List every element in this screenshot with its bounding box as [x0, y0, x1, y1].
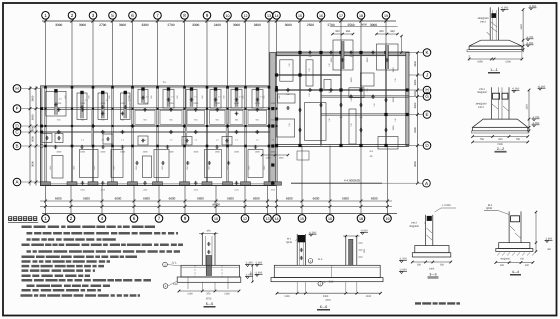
wing rebar mark [308, 52, 312, 54]
column square rowD [206, 125, 208, 127]
right chain tick [416, 113, 419, 116]
bottom pad [67, 182, 77, 185]
svg-text:960: 960 [390, 30, 395, 33]
svg-text:960: 960 [346, 30, 351, 33]
bottom grid bubble 2 [70, 214, 72, 215]
detail 1-1 elev a [501, 10, 504, 12]
notes text line 9 [22, 269, 96, 272]
bottom chain ticks [244, 200, 247, 203]
junction dim line [262, 154, 288, 156]
band2 wall mark [215, 109, 219, 111]
bottom grid bubble 14 [276, 214, 278, 215]
wing rebar mark [384, 99, 388, 101]
svg-text:3000: 3000 [285, 23, 292, 27]
right grid bubble K [423, 49, 431, 57]
wing rebar mark [319, 104, 323, 106]
svg-text:17: 17 [339, 14, 343, 18]
svg-text:1500: 1500 [215, 151, 221, 154]
band2 wall mark [169, 109, 173, 111]
band3 mark [225, 140, 229, 142]
svg-text:2Φ12: 2Φ12 [478, 106, 485, 109]
top chain tick 1 [44, 19, 47, 22]
rowC mark [235, 131, 239, 133]
bottom grid dropper [244, 186, 246, 214]
rowB mark [80, 146, 84, 148]
wing rebar mark [349, 96, 353, 98]
column square top [92, 86, 95, 89]
left dim chain line inner [35, 86, 37, 186]
bottom grid bubble 4 [101, 214, 103, 215]
top chain tick 16 [319, 19, 322, 22]
plan wall row C [41, 130, 276, 132]
footing rebar mark [123, 106, 127, 108]
detail 1-1 column embed [491, 13, 496, 18]
section 5-5 label 1 [163, 262, 168, 267]
svg-text:1200: 1200 [120, 102, 126, 105]
right grid bubble H [423, 86, 431, 94]
svg-text:1200: 1200 [143, 102, 149, 105]
footing rect band1 [231, 90, 242, 109]
room rect band2 [187, 110, 205, 124]
footing top mark [214, 87, 217, 90]
svg-text:1200: 1200 [193, 102, 199, 105]
wing column square [298, 73, 301, 76]
detail 2-2 elev d [532, 125, 535, 127]
junction small rect [297, 151, 309, 160]
bottom dim chain lower [40, 206, 392, 208]
grid line 16 vertical [320, 21, 322, 53]
svg-text:750: 750 [516, 138, 521, 141]
band3 mark [45, 137, 49, 139]
svg-text:9600: 9600 [361, 23, 367, 26]
room rect band4 [143, 156, 152, 178]
rowC mark [169, 131, 173, 133]
wing footing rect [280, 60, 293, 81]
section 5-5 stem lines [201, 282, 203, 290]
notes text line 3 [27, 238, 117, 241]
column square top [244, 86, 247, 89]
notes text line 2 [27, 232, 179, 235]
wing column square [405, 113, 408, 116]
detail 2-2 footing [473, 119, 528, 127]
right grid bubble D [423, 142, 431, 150]
section 5-5 column top dim [199, 233, 218, 235]
wing wall row E [321, 113, 409, 115]
bottom grid dropper [101, 186, 103, 214]
top chain tick 8 [183, 19, 186, 22]
wing column square [359, 88, 362, 91]
svg-text:-1.300: -1.300 [255, 262, 263, 265]
svg-text:3300: 3300 [414, 127, 417, 133]
notes text line 14 [21, 294, 141, 297]
plan wall col 8 [183, 86, 185, 186]
room rect band2 [230, 110, 243, 124]
svg-text:-2.000: -2.000 [399, 269, 407, 272]
wing wall col 15 [298, 53, 300, 146]
svg-text:2400: 2400 [214, 23, 221, 27]
top chain tick 15 [298, 19, 301, 22]
bottom pad [264, 182, 274, 185]
notes title underline [8, 222, 38, 224]
wing column square [319, 51, 322, 54]
svg-text:6: 6 [131, 13, 134, 18]
bottom grid dropper [301, 146, 303, 214]
left chain ticks [29, 181, 32, 184]
column square rowF [92, 108, 94, 110]
wing wall row J [277, 73, 342, 75]
svg-text:6600: 6600 [313, 197, 320, 201]
wall gray fill v1 [91, 109, 93, 146]
column square top [44, 86, 47, 89]
svg-text:1500: 1500 [392, 67, 395, 73]
svg-text:6—6: 6—6 [320, 305, 328, 309]
right chain tick [416, 74, 419, 77]
section 6-6 label 1 [308, 259, 313, 264]
svg-text:15: 15 [300, 217, 304, 221]
bottom grid dropper [158, 186, 160, 214]
column square rowB [206, 145, 209, 148]
wing rebar mark [329, 89, 333, 91]
notes text line 6 [22, 256, 138, 259]
wing footing rect [277, 119, 295, 137]
rowA mark [101, 182, 105, 184]
section 6-6 left column [296, 234, 298, 265]
top chain tick 3 [91, 19, 94, 22]
footing top mark [54, 89, 57, 92]
svg-text:400: 400 [500, 264, 505, 267]
svg-text:1200: 1200 [505, 61, 511, 64]
band4 mark [227, 162, 231, 164]
rowD grid mark [183, 125, 187, 127]
section 6-6 right col top dim [343, 235, 360, 237]
wing column square [339, 88, 342, 91]
column square rowB [268, 145, 271, 148]
top grid bubble 18 [357, 12, 365, 20]
column square rowD [244, 125, 246, 127]
svg-text:3600: 3600 [32, 114, 35, 120]
bottom pad [202, 182, 212, 185]
svg-text:13: 13 [267, 14, 271, 18]
bottom grid dropper [276, 186, 278, 214]
svg-text:16: 16 [319, 14, 323, 18]
grid line 17 vertical [340, 21, 342, 53]
left wall row blobs [40, 107, 43, 110]
rowA mark [81, 182, 85, 184]
bottom pad [153, 182, 163, 185]
svg-text:12: 12 [244, 14, 248, 18]
svg-text:-1.300: -1.300 [245, 262, 253, 265]
svg-text:-0.050: -0.050 [512, 88, 520, 91]
section 5-5 pier marks [207, 251, 211, 253]
svg-text:6600: 6600 [286, 197, 293, 201]
wing column square [275, 88, 278, 91]
column square rowD [131, 125, 133, 127]
notes text line 7 [22, 260, 111, 263]
plan wall col 12 [244, 86, 246, 186]
section 6-6 bottom dim [277, 292, 381, 294]
svg-text:Q235: Q235 [486, 207, 493, 210]
svg-text:2570: 2570 [206, 297, 212, 300]
band3 mark [185, 140, 189, 142]
svg-text:8: 8 [183, 13, 186, 18]
detail 4-4 ground hatch [497, 253, 500, 256]
right grid bubble J [423, 71, 431, 79]
footing rect band1 [46, 91, 66, 116]
room rect band4 [154, 150, 169, 178]
bottom grid dropper [45, 186, 47, 214]
room rect band4 [248, 150, 263, 178]
band4 mark [186, 162, 190, 164]
bottom chain ticks [215, 200, 218, 203]
bottom grid bubble 16 [329, 214, 331, 215]
svg-text:2Φ12: 2Φ12 [480, 21, 487, 24]
column square top [156, 86, 159, 89]
detail 4-4 right elev [545, 241, 548, 243]
wing rebar mark [298, 109, 302, 111]
left chain ticks [29, 145, 32, 148]
grid line 15 vertical [299, 21, 301, 53]
svg-text:9: 9 [206, 13, 209, 18]
svg-text:J: J [426, 73, 428, 78]
wing top footing 19 inner bar [386, 45, 389, 69]
detail 1-1 column [489, 7, 491, 40]
detail 3-3 column hatch [427, 228, 433, 233]
footing top mark [235, 87, 238, 90]
svg-text:1500: 1500 [100, 151, 106, 154]
footing top mark [80, 91, 83, 94]
footing rect band3 [138, 136, 148, 145]
footing rect band1 [121, 93, 131, 120]
svg-text:H: H [425, 88, 428, 93]
rowC mark [255, 131, 259, 133]
bottom grid dropper [360, 146, 362, 214]
svg-text:3600: 3600 [32, 161, 35, 167]
svg-text:1500: 1500 [270, 151, 276, 154]
svg-text:F: F [16, 106, 19, 111]
svg-text:-1.650: -1.650 [255, 272, 263, 275]
column square bottom [206, 183, 209, 186]
wing top footing 17 inner bar [341, 41, 344, 69]
column square rowB [183, 145, 186, 148]
rowB mark [166, 146, 170, 148]
svg-text:Φ6@200: Φ6@200 [500, 258, 510, 261]
rowB mark [121, 146, 125, 148]
svg-text:6600: 6600 [169, 197, 176, 201]
detail 1-1 blinding layer [467, 50, 524, 52]
column square rowB [111, 145, 114, 148]
band2 rebar mark [235, 113, 239, 115]
band2 wall mark [57, 109, 61, 111]
rowB wall gray fill [41, 145, 276, 147]
wing wall col 17 [339, 53, 341, 146]
column square rowD [226, 125, 228, 127]
section 5-5 slab dashes [194, 265, 196, 277]
right chain tick [416, 144, 419, 147]
svg-text:2560: 2560 [307, 23, 314, 27]
bottom pad [241, 182, 251, 185]
wing column square [384, 51, 387, 54]
detail 2-2 bottom dim a [473, 136, 528, 138]
wing column square [298, 144, 301, 147]
column square top [268, 86, 271, 89]
bottom chain ticks [158, 200, 161, 203]
bottom grid bubble 7 [158, 214, 160, 215]
svg-text:6600: 6600 [227, 197, 234, 201]
svg-text:750: 750 [480, 138, 485, 141]
column square top [111, 86, 114, 89]
band4 mark [161, 162, 165, 164]
svg-text:1200: 1200 [80, 102, 86, 105]
wing top wall [277, 52, 410, 56]
column square rowB [226, 145, 229, 148]
section 6-6 slab [274, 265, 380, 277]
bottom grid bubble 15 [301, 214, 303, 215]
notes text line 13 [22, 289, 102, 292]
svg-text:3300: 3300 [414, 102, 417, 108]
rowC mark [121, 131, 125, 133]
detail 2-2 core a [493, 93, 500, 99]
plan wall col 1 [44, 86, 46, 186]
grid line 13 vertical [268, 21, 270, 86]
svg-text:18: 18 [359, 217, 363, 221]
column square rowF [226, 108, 228, 110]
top chain tick 9 [205, 19, 208, 22]
svg-text:6600: 6600 [55, 197, 62, 201]
section 5-5 slab [181, 265, 240, 277]
svg-text:2: 2 [70, 216, 73, 221]
section 6-6 right col side ticks [359, 242, 363, 244]
column square bottom [92, 183, 95, 186]
top chain tick 5 [111, 19, 114, 22]
bottom chain ticks [386, 200, 389, 203]
svg-text:3000: 3000 [79, 23, 86, 27]
room rect band4 [52, 156, 63, 179]
top chain tick 13 [267, 19, 270, 22]
bottom pad [223, 182, 233, 185]
detail 1-1 column hatch [491, 22, 497, 27]
plan wall col 14 [275, 86, 277, 186]
column square bottom [268, 183, 271, 186]
wing column square [339, 144, 342, 147]
wing wall row H [277, 88, 410, 90]
wing top right vdim [401, 36, 403, 53]
rowH wall gray fill [41, 86, 276, 88]
left chain ticks [29, 107, 32, 110]
footing top mark [167, 87, 170, 90]
column square rowF [111, 108, 113, 110]
left grid bubble H [13, 85, 21, 93]
svg-text:2Φ12: 2Φ12 [411, 222, 418, 225]
grid line 5 vertical [112, 21, 114, 86]
room rect band2 [210, 110, 226, 124]
bottom grid dropper [133, 186, 135, 214]
wing rebar mark [308, 89, 312, 91]
svg-text:1100: 1100 [187, 293, 193, 296]
footing rebar mark [256, 99, 260, 101]
notes text line 8 [22, 265, 105, 268]
column square bottom [275, 183, 278, 186]
column square top [206, 86, 209, 89]
svg-text:1500: 1500 [120, 151, 126, 154]
footing rect band3 [182, 137, 192, 146]
left grid bubble A [13, 178, 21, 186]
svg-text:600: 600 [498, 138, 503, 141]
svg-text:2100: 2100 [497, 143, 503, 146]
section 6-6 left col elev [309, 234, 312, 236]
rowD grid mark [267, 125, 271, 127]
svg-text:3300: 3300 [55, 23, 62, 27]
detail 1-1 right vdim [522, 10, 524, 50]
rowB mark [101, 146, 105, 148]
wing rebar mark [349, 52, 353, 54]
wing footing rect [306, 60, 313, 86]
bottom chain ticks [301, 200, 304, 203]
rowC mark [57, 131, 61, 133]
top grid bubble 14 [273, 12, 281, 20]
svg-text:-0.050: -0.050 [538, 85, 546, 88]
column square rowF [244, 108, 246, 110]
wing column square [275, 73, 278, 76]
band2 wall mark [194, 109, 198, 111]
left grid bubble C [13, 128, 21, 136]
svg-text:6600: 6600 [143, 197, 150, 201]
column square top [183, 86, 186, 89]
grid line 14 vertical [276, 21, 278, 86]
section 6-6 right col elev [361, 232, 364, 234]
svg-text:3300: 3300 [414, 79, 417, 85]
wing top footing marks [341, 59, 345, 61]
svg-text:-0.050: -0.050 [309, 231, 317, 234]
svg-text:1050: 1050 [477, 61, 483, 64]
notes text line 11 [22, 279, 152, 282]
column square bottom [71, 183, 74, 186]
top grid bubble 12 [242, 12, 250, 20]
wing footing rect [333, 40, 353, 70]
junction column square [271, 124, 274, 127]
room rect band4 [111, 150, 123, 178]
top grid bubble 7 [154, 12, 162, 20]
top grid bubble 19 [382, 12, 390, 20]
bottom grid bubble 9 [184, 214, 186, 215]
detail 2-2 hatch [492, 104, 498, 109]
rowB mark [215, 146, 219, 148]
wing column square [275, 117, 278, 120]
notes title glyphs [8, 216, 12, 221]
detail 3-3 footing base [412, 253, 451, 257]
row A right bubble [423, 179, 431, 187]
svg-text:3600: 3600 [414, 161, 417, 167]
bottom grid bubble 1 [45, 214, 47, 215]
svg-text:3300: 3300 [254, 23, 261, 27]
band2 wall mark [81, 109, 85, 111]
svg-text:12: 12 [243, 217, 247, 221]
svg-text:G: G [425, 94, 429, 99]
top grid bubble 17 [337, 12, 345, 20]
footing top mark [141, 87, 144, 90]
bottom chain ticks [133, 200, 136, 203]
column square rowB [71, 145, 74, 148]
column square rowF [183, 108, 185, 110]
svg-text:C10: C10 [173, 283, 178, 286]
svg-text:5—5: 5—5 [206, 302, 214, 306]
svg-text:1100: 1100 [284, 295, 290, 298]
elevation line -4.900 [291, 182, 382, 184]
svg-text:6600: 6600 [342, 197, 349, 201]
bottom grid bubble 18 [360, 214, 362, 215]
rowA mark [194, 182, 198, 184]
svg-text:19: 19 [386, 217, 390, 221]
wing footing rect [349, 109, 356, 144]
